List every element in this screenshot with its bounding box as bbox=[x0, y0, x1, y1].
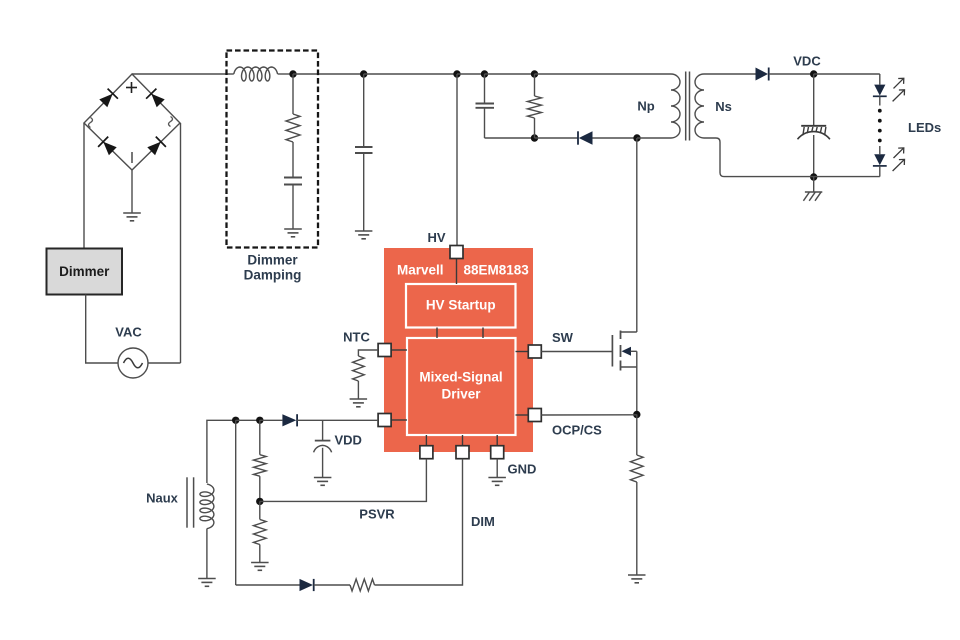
node PSVR bbox=[256, 498, 263, 505]
wire node G to primary bottom bbox=[637, 137, 671, 139]
label LEDs bbox=[908, 120, 941, 135]
ground IC GND bbox=[488, 478, 506, 486]
LED string dots bbox=[878, 109, 882, 143]
wire node H to node I bbox=[236, 419, 260, 421]
label DIM bbox=[471, 514, 495, 529]
wire LED string middle bbox=[879, 146, 881, 154]
bridge rectifier BR1 frame bbox=[84, 74, 180, 170]
svg-text:VDC: VDC bbox=[793, 54, 821, 69]
wire drain to node G bbox=[636, 138, 638, 332]
capacitor C2 input bbox=[355, 147, 373, 231]
wire Rsense to ground bbox=[636, 482, 638, 575]
wire LED string top bbox=[879, 74, 881, 85]
bridge AC tilde left bbox=[89, 118, 93, 128]
ground VDD cap bbox=[314, 478, 332, 486]
wire output return stub to chassis ground bbox=[813, 177, 815, 192]
wire snubber resistor lead bbox=[534, 118, 536, 138]
resistor R5 divider lower bbox=[254, 519, 267, 544]
pin OCP/CS bbox=[528, 409, 541, 422]
LED DL2 bbox=[873, 154, 887, 176]
svg-text:88EM8183: 88EM8183 bbox=[464, 263, 530, 278]
wire node H down to DIM rail bbox=[235, 420, 237, 585]
label Marvell bbox=[397, 263, 444, 278]
capacitor C1 dimmer damping bbox=[284, 178, 302, 230]
wire inductor to node A bbox=[278, 73, 293, 75]
capacitor C3 snubber bbox=[476, 104, 495, 108]
node I (divider tap) bbox=[256, 417, 263, 424]
wire node B to input cap bbox=[363, 74, 365, 147]
bridge diode D1 (lower-left arm, AC- to left node) bbox=[98, 137, 117, 156]
transformer primary winding Np bbox=[671, 74, 680, 138]
svg-text:LEDs: LEDs bbox=[908, 120, 941, 135]
label VDC bbox=[793, 54, 821, 69]
node G (drain / primary bottom) bbox=[633, 134, 640, 141]
svg-text:VDD: VDD bbox=[335, 433, 362, 448]
resistor R3 current sense bbox=[631, 455, 644, 482]
capacitor C5 VDD (polarized) bbox=[314, 441, 332, 478]
wire VDC node to output cap bbox=[813, 74, 815, 126]
pin SW bbox=[528, 345, 541, 358]
node C (HV tap) bbox=[453, 70, 460, 77]
ground NTC bbox=[350, 399, 368, 407]
inductor Naux winding bbox=[200, 484, 214, 529]
transformer core bbox=[686, 72, 690, 141]
label Naux bbox=[146, 491, 179, 506]
node VDC bbox=[810, 70, 817, 77]
wire snubber cap to clamp rail bbox=[484, 108, 486, 138]
resistor R4 divider upper bbox=[254, 455, 267, 477]
svg-text:Dimmer: Dimmer bbox=[247, 253, 298, 268]
label VAC bbox=[115, 325, 142, 340]
label GND bbox=[508, 462, 537, 477]
label Dimmer Damping bbox=[244, 253, 302, 283]
resistor R2 snubber bbox=[528, 96, 542, 118]
wire R5 to ground bbox=[259, 545, 261, 563]
resistor R1 dimmer damping bbox=[286, 114, 300, 142]
wire R6 to DIM pin bbox=[375, 459, 463, 585]
wire source to OCP node bbox=[636, 351, 638, 414]
LED DL1 bbox=[873, 85, 887, 106]
wire node E to snubber resistor bbox=[534, 74, 536, 96]
transistor Q1 body arrow bbox=[622, 347, 637, 356]
wire node I to R4 bbox=[259, 420, 261, 454]
pin VDD (left lower) bbox=[378, 414, 391, 427]
svg-text:HV Startup: HV Startup bbox=[426, 298, 496, 313]
dimmer damping dashed outline bbox=[227, 51, 319, 248]
label PSVR bbox=[359, 507, 395, 522]
pin NTC bbox=[378, 344, 391, 357]
label Np bbox=[637, 99, 654, 114]
ground damping branch bbox=[284, 229, 302, 237]
wire node C to HV pin bbox=[456, 74, 458, 247]
svg-text:DIM: DIM bbox=[471, 514, 495, 529]
svg-text:VAC: VAC bbox=[115, 325, 142, 340]
wire GND pin to ground bbox=[496, 459, 498, 478]
wire VDD pin to Mixed-Signal bbox=[391, 419, 407, 421]
svg-text:OCP/CS: OCP/CS bbox=[552, 423, 602, 438]
diode D5 clamp (points left) bbox=[578, 131, 593, 144]
ground divider bbox=[251, 563, 269, 571]
wire node I to VDD diode bbox=[260, 419, 283, 421]
node A (damping tap) bbox=[289, 70, 296, 77]
transformer secondary winding Ns bbox=[695, 74, 704, 138]
node OCP sense bbox=[633, 411, 640, 418]
resistor RT1 NTC thermistor bbox=[353, 356, 365, 381]
node H (DIM branch tap) bbox=[232, 417, 239, 424]
svg-text:SW: SW bbox=[552, 330, 574, 345]
node D (snubber cap tap) bbox=[481, 70, 488, 77]
node F (snubber resistor bottom) bbox=[531, 134, 538, 141]
wire sense node to Rsense bbox=[636, 415, 638, 456]
wire OCP pin to sense node bbox=[541, 414, 637, 416]
ground Rsense bbox=[628, 575, 646, 583]
wire bridge right node down to VAC bbox=[180, 123, 182, 363]
ground input cap bbox=[355, 231, 373, 239]
label OCP/CS bbox=[552, 423, 602, 438]
IC Mixed-Signal Driver block bbox=[407, 338, 516, 435]
VAC source bbox=[118, 348, 148, 378]
wire HV Startup to Mixed-Signal left bbox=[436, 328, 438, 339]
wire Mixed-Signal to SW pin bbox=[516, 351, 529, 353]
bridge AC tilde right bbox=[169, 117, 173, 127]
ground below bridge bbox=[123, 213, 141, 221]
svg-text:Ns: Ns bbox=[715, 99, 732, 114]
pin HV bbox=[450, 246, 463, 259]
wire VAC to right branch bbox=[148, 362, 181, 364]
diode D6 output rectifier (points right) bbox=[756, 68, 769, 81]
pin PSVR bbox=[420, 446, 433, 459]
wire HV pin to HV Startup bbox=[456, 252, 458, 284]
svg-text:Naux: Naux bbox=[146, 491, 179, 506]
bridge diode D2 (upper-left arm, left node to +) bbox=[99, 89, 118, 108]
chassis ground output bbox=[803, 192, 822, 201]
label Ns bbox=[715, 99, 732, 114]
wire bridge left node down to Dimmer bbox=[83, 123, 85, 249]
wire PSVR node to R5 bbox=[259, 501, 261, 519]
svg-text:NTC: NTC bbox=[343, 330, 370, 345]
LED DL1 arrows bbox=[893, 78, 905, 101]
svg-text:Dimmer: Dimmer bbox=[59, 264, 110, 279]
diode D7 VDD (points right) bbox=[282, 414, 297, 426]
label SW bbox=[552, 330, 574, 345]
bridge - polarity mark bbox=[131, 152, 133, 163]
wire Naux bottom to ground bbox=[206, 529, 208, 579]
wire node A to damping resistor bbox=[292, 74, 294, 114]
wire VDD cap tap bbox=[322, 420, 324, 440]
wire bridge + to damping inductor bbox=[132, 73, 230, 75]
wire NTC pin to Mixed-Signal bbox=[391, 349, 407, 351]
resistor R6 DIM bbox=[350, 579, 375, 591]
node B (input cap tap) bbox=[360, 70, 367, 77]
node E (snubber resistor tap) bbox=[531, 70, 538, 77]
wire Mixed-Signal to GND pin bbox=[496, 435, 498, 446]
capacitor C4 output (polarized) bbox=[798, 126, 830, 139]
label VDD bbox=[335, 433, 362, 448]
wire damping resistor to cap bbox=[292, 142, 294, 178]
pin DIM bbox=[456, 446, 469, 459]
svg-text:Damping: Damping bbox=[244, 268, 302, 283]
wire node D to node E bbox=[485, 73, 535, 75]
wire clamp diode to drain node bbox=[593, 137, 638, 139]
wire NTC pin to thermistor bbox=[358, 350, 378, 356]
pin GND bbox=[491, 446, 504, 459]
node output return bbox=[810, 173, 817, 180]
transistor Q1 channel segments bbox=[620, 331, 622, 371]
bridge diode D4 (lower-right arm, AC- to right node) bbox=[147, 137, 166, 156]
wire Naux top to VDD rail bbox=[207, 420, 236, 483]
wire node E to transformer primary bbox=[535, 73, 672, 75]
wire bridge minus to ground bbox=[131, 170, 133, 213]
wire PSVR node to PSVR pin bbox=[260, 459, 427, 502]
wire node A to node B bbox=[293, 73, 364, 75]
label HV bbox=[427, 230, 445, 245]
wire node D to snubber cap bbox=[484, 74, 486, 104]
transistor Q1 gate plate bbox=[611, 335, 613, 367]
inductor L1 dimmer damping bbox=[230, 67, 278, 81]
svg-text:Np: Np bbox=[637, 99, 654, 114]
dimmer box bbox=[47, 249, 123, 295]
svg-text:Mixed-Signal: Mixed-Signal bbox=[419, 370, 502, 385]
wire Dimmer to VAC bbox=[86, 295, 118, 364]
svg-text:GND: GND bbox=[508, 462, 537, 477]
bridge + polarity mark bbox=[126, 82, 137, 93]
wire Mixed-Signal to PSVR pin bbox=[425, 435, 427, 446]
diode D8 DIM (points right) bbox=[300, 579, 314, 591]
wire HV Startup to Mixed-Signal right bbox=[482, 328, 484, 339]
LED DL2 arrows bbox=[893, 148, 905, 171]
bridge diode D3 (upper-right arm, right node to +) bbox=[146, 89, 165, 108]
wire VDC node to LED string top bbox=[814, 73, 880, 75]
svg-text:HV: HV bbox=[427, 230, 445, 245]
wire thermistor to ground bbox=[357, 381, 359, 399]
svg-text:PSVR: PSVR bbox=[359, 507, 395, 522]
wire node B to node C bbox=[364, 73, 457, 75]
IC HV Startup block bbox=[406, 284, 516, 328]
label NTC bbox=[343, 330, 370, 345]
IC U1 88EM8183 body bbox=[384, 248, 533, 452]
transistor Q1 drain lead bbox=[621, 331, 637, 333]
Naux core bbox=[187, 477, 194, 527]
wire snubber resistor bottom to diode cathode bbox=[535, 137, 579, 139]
wire DIM diode to R6 bbox=[314, 584, 350, 586]
wire output cap to output return bbox=[813, 135, 815, 177]
wire R4 to PSVR node bbox=[259, 476, 261, 501]
wire clamp rail left segment bbox=[485, 137, 535, 139]
wire secondary bottom to output return bbox=[704, 138, 880, 177]
svg-text:Marvell: Marvell bbox=[397, 263, 444, 278]
wire DIM rail left segment bbox=[236, 584, 300, 586]
label 88EM8183 bbox=[464, 263, 530, 278]
wire node C to node D bbox=[457, 73, 485, 75]
svg-text:Driver: Driver bbox=[441, 387, 481, 402]
ground Naux bbox=[198, 579, 216, 587]
wire SW pin to gate bbox=[541, 351, 612, 353]
wire Mixed-Signal to DIM pin bbox=[462, 435, 464, 446]
wire output diode to VDC node bbox=[769, 73, 814, 75]
wire Mixed-Signal to OCP pin bbox=[516, 414, 529, 416]
wire secondary top to output diode bbox=[704, 73, 756, 75]
wire VDD diode to VDD pin bbox=[297, 419, 378, 421]
transistor Q1 source lead bbox=[621, 366, 637, 368]
